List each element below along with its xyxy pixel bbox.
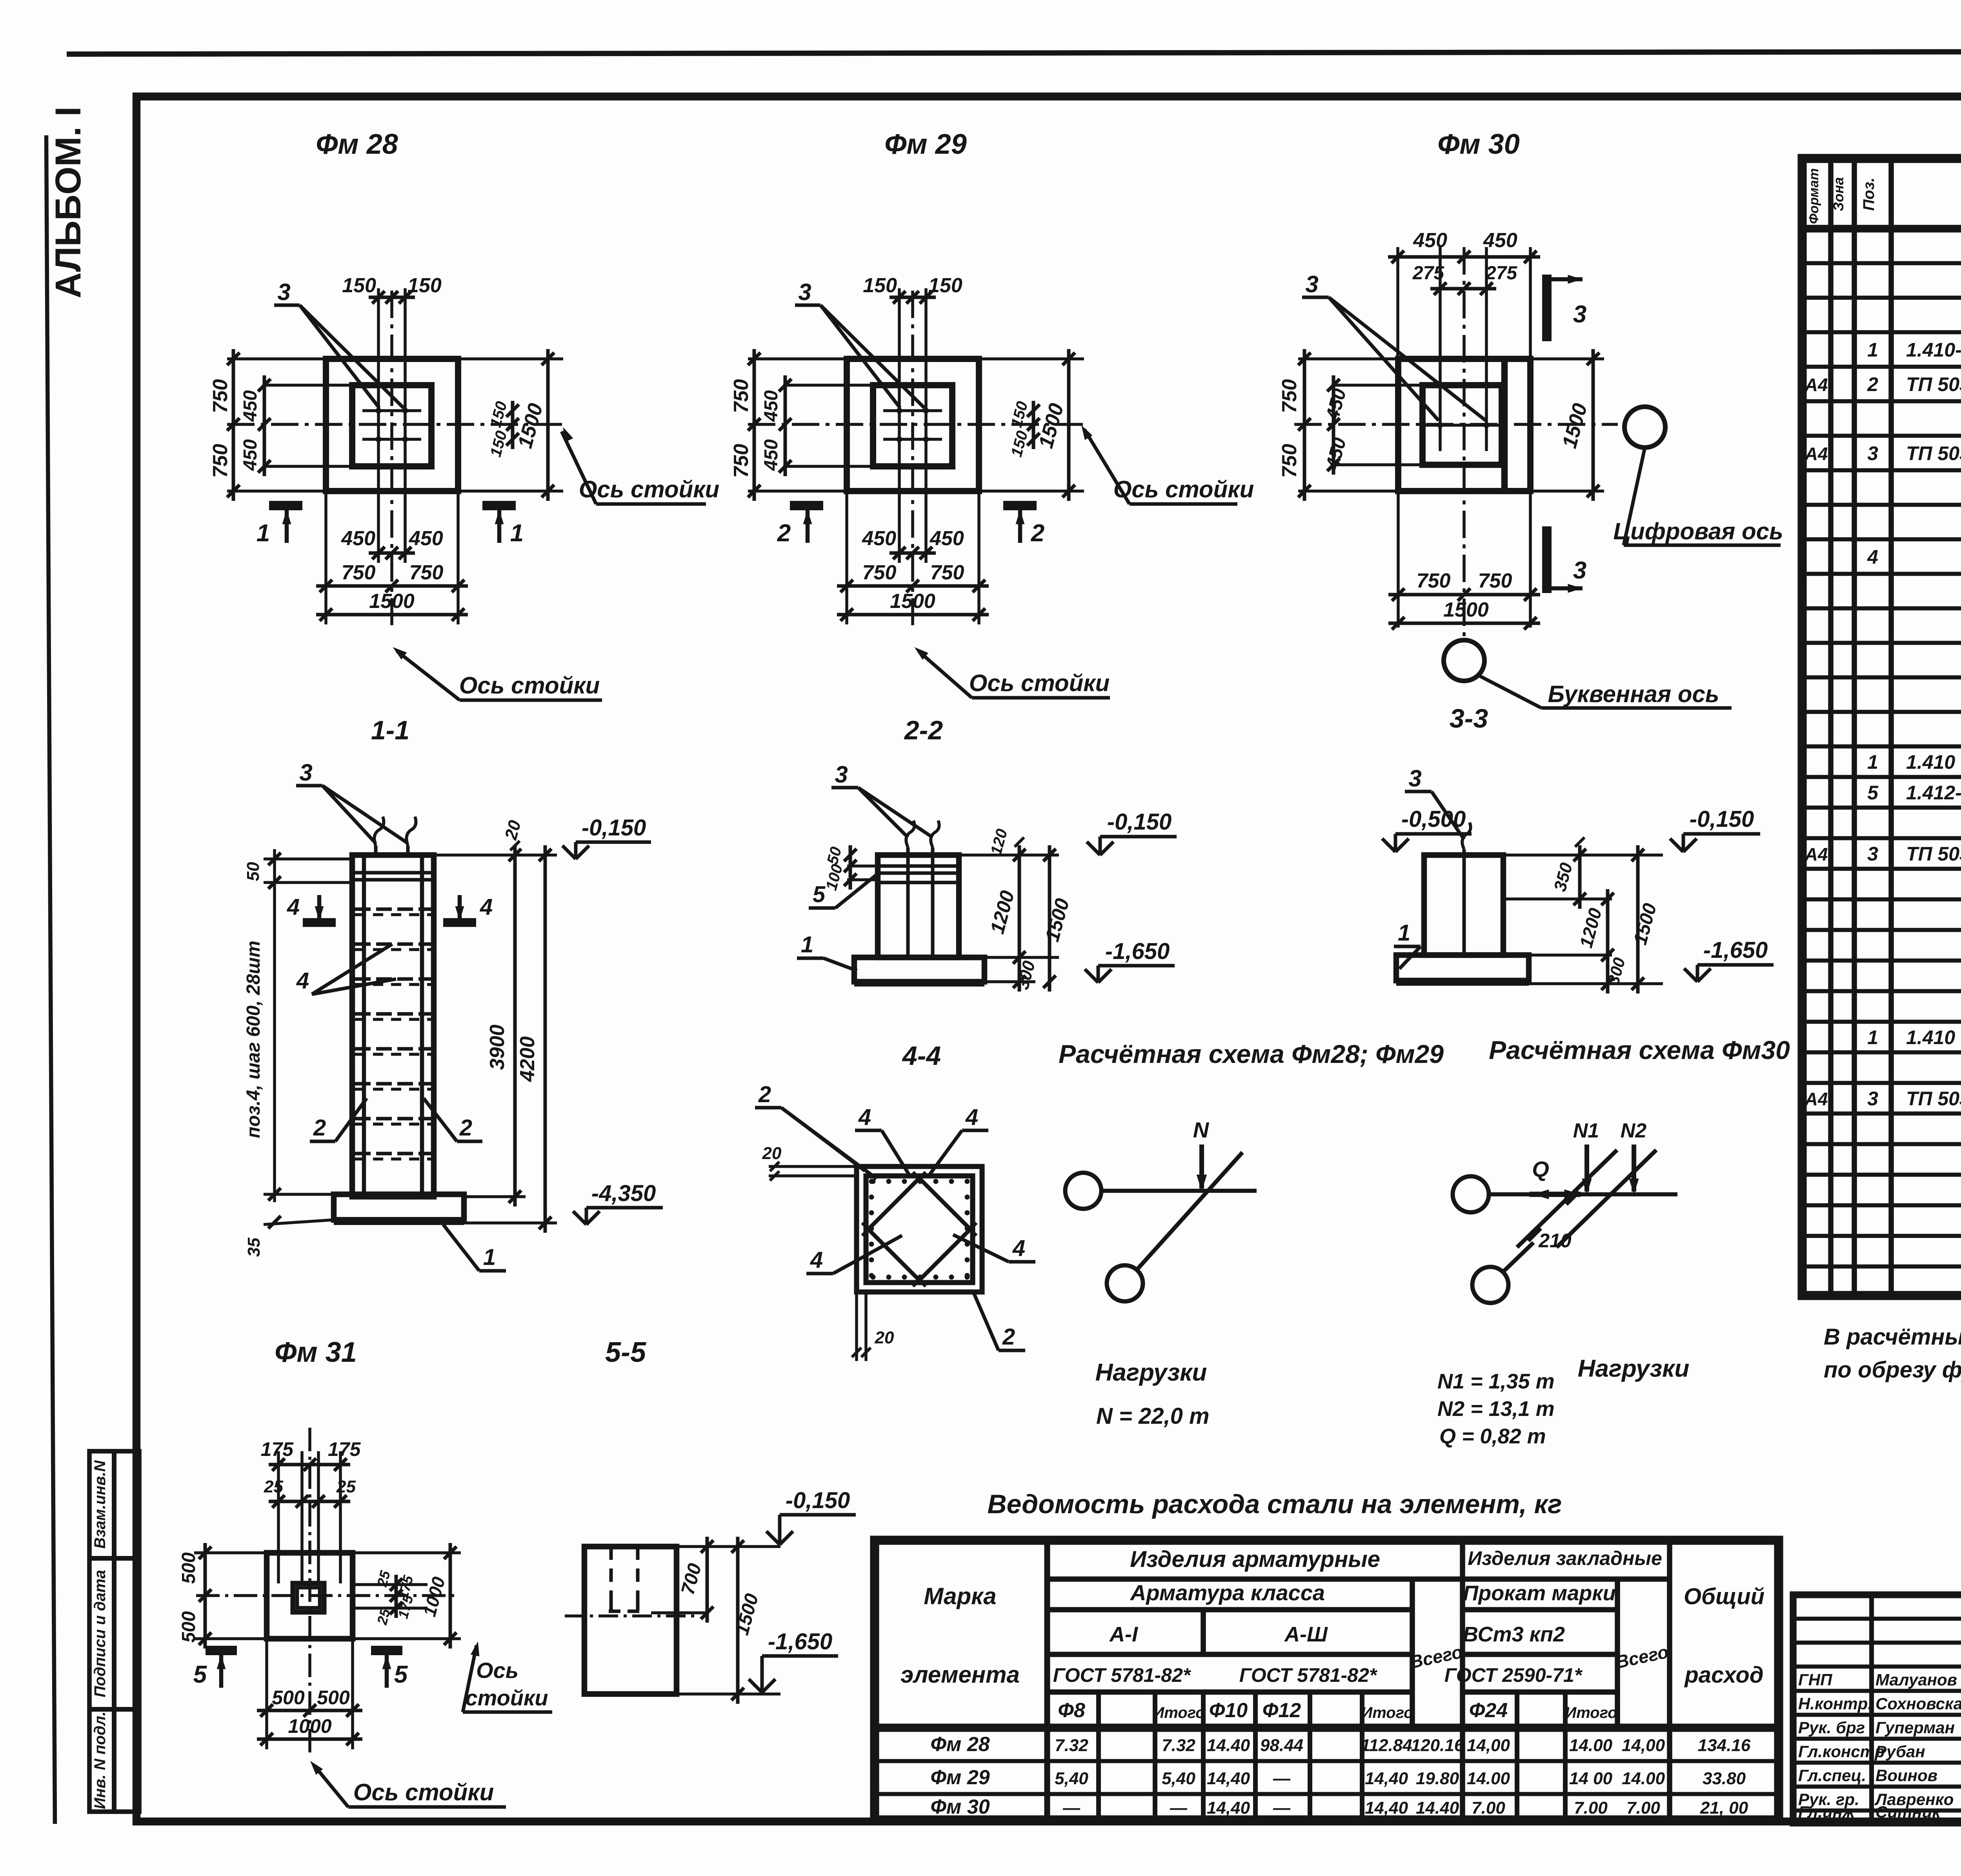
svg-text:14.00: 14.00 (1467, 1769, 1510, 1788)
svg-text:500: 500 (272, 1687, 305, 1709)
svg-text:Ф10: Ф10 (1209, 1699, 1248, 1722)
svg-text:1: 1 (1398, 920, 1410, 946)
svg-text:7.00: 7.00 (1472, 1798, 1505, 1818)
svg-text:2-2: 2-2 (904, 715, 943, 745)
svg-text:N: N (1193, 1117, 1210, 1142)
section 5-5 socket dashed (609, 1547, 613, 1602)
svg-text:Фм 29: Фм 29 (930, 1766, 990, 1789)
svg-text:Фм 30: Фм 30 (930, 1796, 990, 1818)
svg-text:Зона: Зона (1830, 177, 1846, 211)
svg-text:3: 3 (299, 759, 312, 786)
scheme Fm28-29 diagonal member (1137, 1152, 1242, 1270)
digit axis circle (1624, 407, 1665, 448)
svg-text:450: 450 (862, 527, 896, 550)
svg-text:Изделия арматурные: Изделия арматурные (1130, 1547, 1380, 1572)
svg-text:1: 1 (801, 932, 813, 957)
svg-text:Фм 28: Фм 28 (930, 1733, 990, 1756)
scheme Fm28-29 horizontal member (1101, 1189, 1257, 1193)
svg-text:по обрезу фундамента на: по обрезу фундамента на отм. -0,150. (1824, 1357, 1961, 1383)
svg-text:Поз.: Поз. (1860, 178, 1877, 211)
plan Фм31 outer square (267, 1553, 353, 1639)
svg-text:14,40: 14,40 (1365, 1798, 1408, 1818)
svg-text:Фм 31: Фм 31 (275, 1337, 357, 1368)
svg-text:-1,650: -1,650 (1105, 939, 1170, 964)
svg-text:Ось стойки: Ось стойки (1113, 476, 1254, 502)
digit axis label (1624, 448, 1645, 545)
plan Фм30 pedestal rect (1423, 385, 1502, 465)
svg-text:—: — (1273, 1769, 1291, 1788)
spec table column lines (1828, 158, 1834, 1296)
svg-text:ТП 503-3-20.87 альбом IV: ТП 503-3-20.87 альбом IV (1906, 1088, 1961, 1110)
svg-text:Прокат марки: Прокат марки (1463, 1581, 1615, 1605)
signature table (1793, 1595, 1961, 1823)
svg-text:Q: Q (1532, 1157, 1549, 1181)
plan Фм29 anchor bolts (897, 408, 902, 413)
svg-text:1200: 1200 (1575, 906, 1606, 950)
svg-text:1: 1 (256, 520, 270, 547)
svg-text:1500: 1500 (1558, 401, 1592, 451)
svg-text:Рук. брг: Рук. брг (1798, 1718, 1865, 1737)
svg-text:150: 150 (407, 274, 442, 297)
svg-text:7.32: 7.32 (1162, 1736, 1195, 1755)
svg-text:Рубан: Рубан (1876, 1742, 1925, 1761)
svg-text:1: 1 (510, 520, 524, 547)
svg-text:Итого: Итого (1153, 1704, 1205, 1721)
svg-text:Расчётная схема Фм30: Расчётная схема Фм30 (1489, 1035, 1790, 1064)
svg-text:4: 4 (1012, 1236, 1025, 1261)
svg-text:450: 450 (409, 527, 443, 550)
section 5-5 block (584, 1547, 677, 1694)
svg-text:Воинов: Воинов (1876, 1766, 1937, 1785)
svg-text:450: 450 (240, 390, 261, 422)
plan Фм30 anchor bolts (1437, 422, 1443, 428)
steel table grid (1044, 1540, 1050, 1820)
plan Фм31 right small dims (353, 1583, 427, 1586)
svg-text:1.410-3 , вып. 1: 1.410-3 , вып. 1 (1906, 339, 1961, 361)
svg-text:Малуанов: Малуанов (1876, 1670, 1957, 1689)
svg-text:4: 4 (965, 1104, 978, 1130)
section 4-4 inner square (866, 1176, 973, 1283)
svg-text:1.410 -3, вып.1: 1.410 -3, вып.1 (1906, 751, 1961, 773)
plan Фм30 centerlines (1294, 423, 1618, 426)
svg-text:-1,650: -1,650 (1703, 937, 1768, 963)
svg-text:Изделия закладные: Изделия закладные (1468, 1547, 1662, 1569)
svg-text:500: 500 (178, 1611, 199, 1643)
section 5-5 right dims (677, 1545, 780, 1548)
svg-text:Фм 30: Фм 30 (1437, 129, 1520, 160)
svg-text:—: — (1170, 1798, 1188, 1818)
svg-text:Инв. N подл.: Инв. N подл. (91, 1712, 109, 1809)
svg-text:112.84: 112.84 (1361, 1736, 1412, 1755)
svg-text:210: 210 (1538, 1230, 1572, 1252)
svg-text:750: 750 (342, 561, 376, 584)
svg-text:450: 450 (930, 527, 964, 550)
svg-text:2: 2 (459, 1115, 472, 1141)
svg-text:750: 750 (1278, 444, 1301, 478)
svg-text:ТП 503-3-20.87 альбом IV: ТП 503-3-20.87 альбом IV (1906, 843, 1961, 865)
section 4-4 dim 20 top-left (769, 1165, 857, 1168)
svg-text:В расчётных схемах даны: В расчётных схемах даны нормативные нагр… (1824, 1324, 1961, 1350)
scheme Fm30 diagonal members (1517, 1150, 1617, 1247)
svg-text:3-3: 3-3 (1450, 704, 1488, 733)
svg-text:14.00: 14.00 (1569, 1736, 1613, 1755)
plan Фм30 right dim 1500 (1530, 357, 1604, 360)
svg-text:Q = 0,82 т: Q = 0,82 т (1439, 1425, 1546, 1448)
plan Фм29 top dim 150 150 (898, 288, 901, 394)
plan Фм30 top dims (1439, 247, 1442, 400)
svg-text:5,40: 5,40 (1162, 1769, 1195, 1788)
svg-text:-0,150: -0,150 (1690, 806, 1754, 832)
left margin stamp boxes (89, 1451, 139, 1812)
svg-text:поз.4, шаг 600, 28шт: поз.4, шаг 600, 28шт (243, 941, 264, 1138)
svg-text:450: 450 (761, 439, 782, 471)
svg-text:25: 25 (374, 1607, 393, 1627)
svg-text:-1,650: -1,650 (768, 1629, 832, 1654)
svg-text:ГОСТ 5781-82*: ГОСТ 5781-82* (1053, 1664, 1192, 1686)
svg-text:3: 3 (1867, 1088, 1878, 1110)
svg-text:Гл.спец.: Гл.спец. (1798, 1766, 1866, 1785)
plan Фм31 section marks 5 (206, 1646, 237, 1655)
svg-text:1500: 1500 (1630, 901, 1661, 947)
svg-text:3: 3 (1573, 557, 1586, 584)
plan Фм28 right dims (458, 357, 563, 360)
svg-text:350: 350 (1550, 861, 1576, 893)
plan Фм31 top dims (277, 1451, 280, 1583)
svg-text:750: 750 (1478, 570, 1512, 592)
svg-text:750: 750 (1278, 379, 1301, 413)
svg-text:2: 2 (313, 1115, 326, 1141)
svg-text:750: 750 (730, 444, 753, 478)
svg-text:20: 20 (762, 1144, 782, 1163)
svg-text:Подписи и дата: Подписи и дата (91, 1570, 109, 1698)
section 4-4 outer square (857, 1166, 982, 1292)
svg-text:750: 750 (862, 561, 897, 584)
svg-text:4: 4 (810, 1247, 823, 1273)
svg-text:2: 2 (777, 520, 791, 547)
svg-text:3: 3 (1867, 442, 1878, 464)
svg-text:134.16: 134.16 (1698, 1736, 1751, 1755)
svg-text:N2 = 13,1 т: N2 = 13,1 т (1437, 1397, 1555, 1421)
section 4-4 rebar dots (871, 1179, 875, 1184)
scheme Fm30 horizontal member (1489, 1192, 1677, 1197)
svg-text:Ф24: Ф24 (1469, 1699, 1508, 1722)
svg-text:5: 5 (1867, 782, 1879, 804)
svg-text:Нагрузки: Нагрузки (1578, 1355, 1690, 1382)
svg-text:21, 00: 21, 00 (1700, 1798, 1748, 1818)
svg-text:Н.контр.: Н.контр. (1798, 1694, 1872, 1713)
plan Фм31 anchor bolt lines (300, 1451, 304, 1585)
section 3-3 right dims (1503, 853, 1663, 857)
outer top border line (67, 51, 1961, 54)
svg-text:500: 500 (317, 1687, 350, 1709)
plan Фм31 bottom dims (265, 1639, 268, 1749)
svg-text:450: 450 (341, 527, 375, 550)
svg-text:4: 4 (287, 894, 300, 920)
steel table outer border (875, 1540, 1779, 1820)
left outer thin line (46, 135, 55, 1824)
svg-text:2: 2 (758, 1082, 771, 1107)
plan Фм28 left dims (227, 357, 326, 360)
svg-text:Общий: Общий (1684, 1584, 1765, 1609)
svg-text:35: 35 (244, 1237, 264, 1257)
svg-text:450: 450 (1413, 229, 1447, 252)
svg-text:3: 3 (798, 279, 811, 305)
svg-text:Ось стойки: Ось стойки (969, 670, 1110, 696)
svg-text:-4,350: -4,350 (591, 1181, 656, 1206)
svg-text:ТП 503-3-20.87 альбом IV: ТП 503-3-20.87 альбом IV (1906, 442, 1961, 464)
plan Фм29 bottom dims (845, 491, 848, 624)
svg-text:450: 450 (240, 439, 261, 471)
svg-text:ГНП: ГНП (1798, 1670, 1832, 1689)
section 1-1 right dims (434, 853, 557, 857)
plan Фм29 outer square (847, 359, 979, 491)
svg-text:14,00: 14,00 (1467, 1736, 1510, 1755)
svg-text:14.40: 14.40 (1416, 1798, 1459, 1818)
svg-text:А-I: А-I (1109, 1623, 1138, 1646)
section 3-3 footing (1396, 955, 1529, 981)
svg-text:Итого: Итого (1361, 1704, 1413, 1721)
svg-text:-0,150: -0,150 (582, 815, 646, 841)
svg-text:ГОСТ 5781-82*: ГОСТ 5781-82* (1239, 1664, 1378, 1686)
plan Фм29 left dims (748, 357, 847, 360)
svg-text:Итого: Итого (1565, 1704, 1617, 1721)
svg-text:150: 150 (342, 274, 376, 297)
svg-text:3: 3 (1305, 271, 1318, 297)
svg-text:750: 750 (209, 379, 232, 413)
svg-text:7.00: 7.00 (1626, 1798, 1660, 1818)
spec table header bottom (1802, 225, 1961, 233)
svg-text:N2: N2 (1621, 1119, 1647, 1142)
svg-text:450: 450 (1322, 386, 1350, 422)
svg-text:ТП 503-3-20.87 альбом IV: ТП 503-3-20.87 альбом IV (1906, 373, 1961, 395)
svg-text:-0,150: -0,150 (1107, 809, 1172, 835)
scheme Fm28-29 node circle top (1065, 1173, 1101, 1209)
svg-text:150: 150 (863, 274, 897, 297)
svg-text:450: 450 (1483, 229, 1517, 252)
svg-text:АЛЬБОМ. I: АЛЬБОМ. I (48, 106, 88, 298)
svg-text:стойки: стойки (465, 1685, 548, 1710)
svg-text:5: 5 (394, 1661, 408, 1688)
svg-text:14,00: 14,00 (1622, 1736, 1665, 1755)
svg-text:33.80: 33.80 (1703, 1769, 1746, 1788)
spec table row lines (1802, 261, 1961, 266)
svg-text:500: 500 (178, 1552, 199, 1584)
plan Фм28 top dim 150 150 (377, 288, 380, 394)
svg-text:Сохновская: Сохновская (1876, 1694, 1961, 1713)
svg-text:А4: А4 (1805, 444, 1828, 464)
plan Фм30 section mark 3 bottom (1542, 526, 1552, 593)
letter axis circle (1444, 640, 1484, 681)
svg-text:ГОСТ 2590-71*: ГОСТ 2590-71* (1444, 1664, 1583, 1686)
svg-text:750: 750 (730, 379, 753, 413)
plan Фм28 outer square (326, 359, 458, 491)
svg-text:Цифровая ось: Цифровая ось (1613, 518, 1783, 544)
svg-text:175: 175 (328, 1438, 361, 1460)
svg-text:50: 50 (244, 862, 263, 881)
svg-text:Гл.констр: Гл.констр (1798, 1742, 1885, 1761)
svg-text:450: 450 (761, 390, 782, 422)
svg-text:750: 750 (409, 561, 444, 584)
svg-text:7.00: 7.00 (1574, 1798, 1608, 1818)
svg-text:3: 3 (277, 279, 290, 305)
svg-text:4: 4 (480, 894, 493, 920)
scheme Fm30 node circle bottom (1472, 1267, 1508, 1303)
plan Фм30 outer square (1398, 359, 1530, 491)
svg-text:300: 300 (1013, 959, 1039, 992)
svg-text:1500: 1500 (369, 590, 415, 613)
plan Фм30 left dims (1298, 357, 1398, 360)
svg-text:N1: N1 (1573, 1119, 1599, 1142)
svg-text:4-4: 4-4 (902, 1041, 941, 1071)
section 1-1 column (352, 855, 434, 1197)
svg-text:14,40: 14,40 (1207, 1798, 1250, 1818)
svg-text:Ось стойки: Ось стойки (353, 1779, 494, 1805)
section 2-2 pedestal (878, 855, 959, 957)
svg-text:1.412-1/77 , вып.3: 1.412-1/77 , вып.3 (1906, 782, 1961, 804)
svg-text:20: 20 (875, 1328, 894, 1347)
section 1-1 stirrups (355, 908, 431, 911)
svg-text:1200: 1200 (986, 888, 1019, 936)
section 2-2 footing (854, 957, 984, 982)
svg-text:Гл.инж: Гл.инж (1798, 1803, 1855, 1821)
plan Фм31 pedestal double square (293, 1583, 324, 1612)
svg-text:Фм 28: Фм 28 (316, 129, 398, 160)
svg-text:5-5: 5-5 (605, 1337, 646, 1368)
section 1-1 left dim line (273, 849, 276, 1202)
svg-text:4: 4 (1867, 546, 1878, 568)
plan Фм29 right dims (979, 357, 1084, 360)
svg-text:1: 1 (1867, 1026, 1878, 1048)
svg-text:-0,500: -0,500 (1401, 806, 1466, 832)
plan Фм28 bottom dims (324, 491, 327, 624)
section 4-4 dim 20 bottom (855, 1292, 858, 1361)
svg-text:Фм 29: Фм 29 (884, 129, 967, 160)
svg-text:150: 150 (487, 429, 511, 459)
svg-text:1: 1 (1867, 751, 1878, 773)
svg-text:Гуперман: Гуперман (1876, 1718, 1955, 1737)
plan Фм31 centerlines (196, 1594, 455, 1597)
plan Фм30 step line (1501, 359, 1508, 491)
plan Фм28 pedestal square (352, 385, 431, 466)
section 2-2 left small dims (847, 864, 878, 868)
svg-text:2: 2 (1031, 520, 1044, 547)
svg-text:А-Ш: А-Ш (1284, 1623, 1328, 1646)
svg-text:—: — (1062, 1798, 1081, 1818)
svg-text:25: 25 (264, 1477, 283, 1496)
svg-text:N = 22,0 т: N = 22,0 т (1096, 1403, 1210, 1429)
svg-text:1500: 1500 (1041, 896, 1073, 944)
svg-text:25: 25 (336, 1477, 356, 1496)
svg-text:14.00: 14.00 (1622, 1769, 1665, 1788)
svg-text:700: 700 (677, 1561, 706, 1597)
svg-text:750: 750 (209, 444, 232, 478)
section 3-3 anchor bolt (1463, 849, 1466, 955)
svg-text:А4: А4 (1805, 844, 1828, 864)
svg-text:98.44: 98.44 (1260, 1736, 1303, 1755)
svg-text:19.80: 19.80 (1416, 1769, 1459, 1788)
plan Фм28 anchor bolts (376, 408, 381, 413)
section 4-4 corner X marks (913, 1172, 926, 1185)
svg-text:Буквенная ось: Буквенная ось (1548, 681, 1719, 707)
svg-text:1: 1 (1867, 339, 1878, 361)
svg-text:20: 20 (501, 818, 525, 842)
svg-text:Арматура класса: Арматура класса (1130, 1580, 1325, 1605)
svg-text:120: 120 (988, 827, 1011, 857)
plan Фм30 bottom dims (1397, 491, 1400, 628)
svg-text:5: 5 (193, 1661, 207, 1688)
svg-text:120.16: 120.16 (1411, 1736, 1464, 1755)
section 1-1 anchor bolts top (374, 846, 378, 855)
svg-text:Формат: Формат (1806, 168, 1821, 224)
section 1-1 mark 4 right (443, 918, 476, 927)
svg-text:Ф12: Ф12 (1262, 1699, 1301, 1722)
svg-text:4: 4 (858, 1104, 871, 1130)
svg-text:750: 750 (930, 561, 964, 584)
plan Фм29 pedestal square (873, 385, 952, 466)
svg-text:3: 3 (1573, 301, 1586, 328)
svg-text:14 00: 14 00 (1569, 1769, 1613, 1788)
svg-text:Ведомость расхода стали на эле: Ведомость расхода стали на элемент, кг (988, 1489, 1562, 1519)
plan Фм31 left dims (194, 1551, 267, 1554)
svg-text:Ось стойки: Ось стойки (579, 476, 720, 502)
svg-text:100: 100 (823, 862, 846, 892)
svg-text:А4: А4 (1805, 1089, 1828, 1109)
svg-text:175: 175 (261, 1438, 294, 1460)
svg-text:Всего: Всего (1614, 1641, 1670, 1672)
plan Фм30 section mark 3 top (1542, 275, 1552, 341)
svg-text:Ось: Ось (476, 1658, 518, 1683)
svg-text:3: 3 (1408, 765, 1421, 792)
section 5-5 centerline (565, 1614, 698, 1618)
svg-text:Нагрузки: Нагрузки (1095, 1359, 1207, 1386)
svg-text:2: 2 (1867, 373, 1878, 395)
svg-text:А4: А4 (1805, 375, 1828, 395)
svg-text:3: 3 (1867, 843, 1878, 865)
section 1-1 mark 4 left (303, 918, 336, 927)
svg-text:2: 2 (1002, 1324, 1015, 1350)
svg-text:1000: 1000 (288, 1715, 331, 1737)
svg-text:-0,150: -0,150 (786, 1488, 850, 1513)
section 2-2 anchor bolts (906, 847, 910, 957)
svg-text:Ф8: Ф8 (1058, 1699, 1085, 1722)
svg-text:1500: 1500 (890, 590, 935, 613)
svg-text:1: 1 (483, 1245, 496, 1270)
svg-text:1000: 1000 (419, 1574, 449, 1619)
svg-text:275: 275 (1485, 263, 1517, 284)
svg-text:750: 750 (1417, 570, 1451, 592)
svg-text:4: 4 (296, 968, 309, 993)
svg-text:3: 3 (835, 761, 848, 788)
svg-text:Ситник: Ситник (1876, 1803, 1941, 1821)
section 1-1 top mesh lines (352, 871, 434, 875)
svg-text:Взам.инв.N: Взам.инв.N (91, 1460, 109, 1548)
plan Фм29 centerlines (748, 423, 1084, 426)
svg-text:расход: расход (1684, 1662, 1763, 1688)
svg-text:элемента: элемента (900, 1661, 1020, 1688)
svg-text:Расчётная схема Фм28; Фм29: Расчётная схема Фм28; Фм29 (1059, 1039, 1444, 1068)
svg-text:Ось стойки: Ось стойки (459, 672, 600, 699)
plan Фм29 section marks (790, 501, 823, 510)
scheme Fm28-29 node circle bottom (1107, 1265, 1143, 1301)
svg-text:150: 150 (928, 274, 962, 297)
svg-text:275: 275 (1412, 263, 1444, 284)
svg-text:Марка: Марка (924, 1583, 996, 1609)
section 4-4 diamond (868, 1178, 970, 1280)
letter axis label (1479, 675, 1541, 708)
svg-text:14.40: 14.40 (1207, 1736, 1250, 1755)
plan Фм28 section marks (269, 501, 302, 510)
spec table outer border (1802, 158, 1961, 1296)
